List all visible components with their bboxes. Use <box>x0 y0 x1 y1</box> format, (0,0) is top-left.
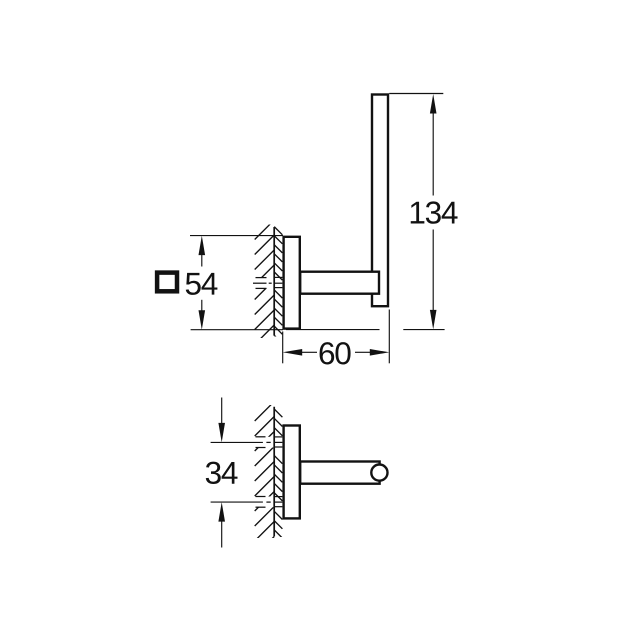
arrow 134 top <box>430 94 437 114</box>
arrow 134 bottom <box>430 310 437 330</box>
arrow 60 right <box>370 349 390 356</box>
horizontal arm <box>300 272 379 294</box>
dim line 54 upper shaft <box>201 255 203 267</box>
ext line 54 top <box>190 235 283 237</box>
wall line top view <box>273 227 275 336</box>
rod end circle <box>371 465 387 481</box>
square symbol <box>157 273 177 292</box>
label 54 <box>186 273 218 295</box>
label 60 <box>320 342 351 364</box>
ext line 60 right <box>388 310 390 364</box>
ext line 60 left <box>282 332 284 364</box>
screw thread bar <box>274 506 282 508</box>
ext line 54 bottom <box>191 329 283 331</box>
screw thread bar 3 <box>274 287 282 289</box>
screw B hole dash bottom <box>256 506 266 508</box>
screw B hole dash top <box>256 496 266 498</box>
arrow 54 top <box>199 236 206 256</box>
ext line 34 top <box>211 441 263 443</box>
screw center dash long <box>253 282 267 284</box>
wall plate front view <box>284 237 300 329</box>
dim line 60 right shaft <box>355 351 370 353</box>
ext line 34 bottom <box>211 501 263 503</box>
arm side view <box>300 462 379 484</box>
screw thread bar <box>274 496 282 498</box>
screw center dash short <box>269 282 272 284</box>
screw thread bar 1 <box>274 276 282 278</box>
arrow 34 bottom <box>218 502 225 521</box>
center dash screw B <box>266 501 270 503</box>
arrow 54 bottom <box>199 310 206 330</box>
screw thread bar <box>274 501 282 503</box>
dim line 134 lower shaft <box>432 230 434 311</box>
ext line 134 bottom <box>403 329 444 331</box>
label 34 <box>206 462 238 484</box>
center dash screw A <box>266 441 270 443</box>
dim line 34 lower shaft <box>221 521 223 547</box>
arrow 60 left <box>283 349 303 356</box>
wall line bottom view <box>273 407 275 537</box>
dim line 134 upper shaft <box>432 113 434 195</box>
ext line plate bottom right <box>286 329 380 331</box>
dim line 54 lower shaft <box>201 300 203 311</box>
dim line 34 upper shaft <box>221 398 223 424</box>
screw thread bar <box>274 436 282 438</box>
screw thread bar <box>274 446 282 448</box>
screw thread bar <box>274 441 282 443</box>
ext line 134 top <box>389 93 443 95</box>
dim line 60 left shaft <box>302 351 317 353</box>
screw thread bar 2 <box>274 282 282 284</box>
wall plate side view <box>284 426 300 519</box>
screw A hole dash top <box>256 436 266 438</box>
screw A hole dash bottom <box>256 447 266 449</box>
screw hole dash bottom <box>256 287 267 289</box>
vertical rod <box>372 95 388 307</box>
screw hole dash top <box>256 277 267 279</box>
arrow 34 top <box>218 423 225 443</box>
label 134 <box>411 201 458 223</box>
